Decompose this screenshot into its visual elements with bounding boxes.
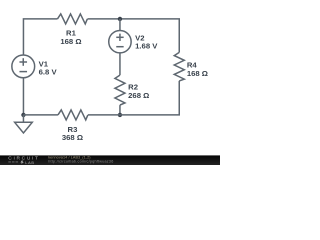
wire bottom left	[23, 114, 58, 116]
ground	[15, 115, 33, 133]
wire	[87, 19, 179, 53]
node junction bottom left	[21, 113, 25, 117]
svg-text:368 Ω: 368 Ω	[62, 133, 83, 142]
voltage source V1	[12, 55, 35, 78]
node junction top (V2 branch)	[118, 17, 122, 21]
resistor R4	[174, 52, 184, 80]
svg-text:LAB: LAB	[25, 161, 34, 165]
wire	[22, 78, 24, 115]
svg-text:CIRCUIT: CIRCUIT	[8, 156, 39, 162]
watermark logo LAB row	[8, 161, 34, 165]
svg-text:1.68 V: 1.68 V	[135, 42, 158, 51]
svg-text:268 Ω: 268 Ω	[128, 91, 149, 100]
resistor R3	[58, 110, 88, 120]
resistor R2	[115, 75, 125, 105]
svg-text:168 Ω: 168 Ω	[60, 37, 81, 46]
svg-text:http://circuitlab.com/c/pqhftw: http://circuitlab.com/c/pqhftwuaz36	[48, 159, 113, 163]
wire	[119, 105, 121, 115]
voltage source V2	[109, 30, 131, 52]
wire top from left corner to right corner	[23, 19, 57, 55]
node junction bottom middle	[118, 113, 122, 117]
svg-text:168 Ω: 168 Ω	[187, 69, 208, 78]
resistor R1	[57, 14, 87, 24]
wire	[119, 19, 121, 31]
svg-text:6.8 V: 6.8 V	[39, 67, 58, 76]
wire	[119, 53, 121, 75]
wire bottom right	[88, 81, 179, 115]
